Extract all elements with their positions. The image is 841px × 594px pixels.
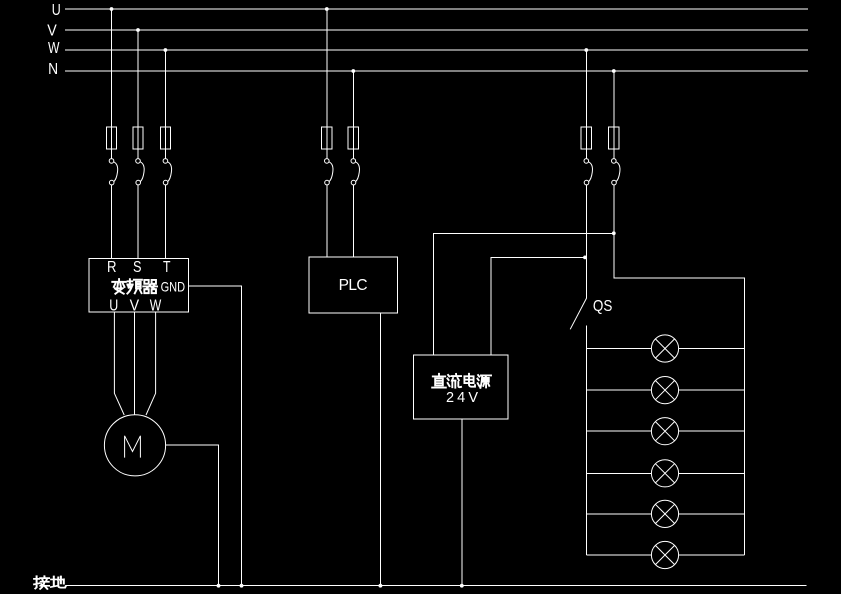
label W: [48, 40, 60, 57]
svg-text:PLC: PLC: [339, 277, 369, 294]
lamp HL2 row: [586, 377, 744, 404]
wire inverter W to motor: [146, 312, 156, 415]
svg-text:U: U: [109, 298, 118, 315]
label V: [47, 23, 57, 40]
PLC box: [309, 257, 397, 313]
wire DC supply to earth: [461, 419, 463, 586]
svg-text:S: S: [133, 259, 142, 276]
wire W bus to fuse FU3: [164, 50, 166, 159]
svg-text:R: R: [107, 259, 117, 276]
motor M1 circle: [104, 415, 165, 476]
lamp HL3 row: [586, 418, 744, 445]
fuse-switch FU6/QF6: [581, 127, 592, 185]
node on U for PLC wire: [325, 7, 329, 11]
node on N for PLC wire: [351, 69, 355, 73]
pin label GND: [161, 279, 186, 295]
wire switch QF1 to inverter R: [111, 185, 113, 258]
wire N bus to fuse FU7: [613, 71, 615, 159]
node on N for lamp branch wire: [612, 69, 616, 73]
DC power supply box 直流电源: [414, 355, 509, 419]
lamp HL6 row: [586, 541, 744, 568]
wire switch QF4 to PLC: [326, 185, 328, 257]
wire switch QF2 to inverter S: [137, 185, 139, 258]
label 24V: [446, 390, 480, 406]
node on U for inverter R wire: [110, 7, 114, 11]
label PLC: [339, 277, 369, 294]
text 接地 (earth): [34, 576, 66, 589]
pin label T: [163, 259, 171, 276]
label N: [48, 61, 58, 78]
lamp HL5 row: [586, 500, 744, 527]
wire motor frame to earth: [166, 445, 219, 586]
pin label V out: [130, 298, 140, 315]
pin label U out: [109, 298, 118, 315]
bus V phase line: [65, 29, 808, 31]
svg-text:N: N: [48, 61, 58, 78]
pin label R: [107, 259, 117, 276]
wire DC supply out to QS wire: [491, 257, 587, 355]
svg-text:GND: GND: [161, 279, 186, 295]
node DC plus joins lamp branch: [612, 231, 616, 235]
wire W bus to fuse FU6: [585, 50, 587, 159]
wire switch QF6 to knife switch QS: [585, 185, 587, 298]
fuse-switch FU5/QF5: [348, 127, 359, 185]
svg-text:W: W: [48, 40, 60, 57]
text 变频器 (inverter): [112, 279, 157, 294]
node DC supply wire on earth: [460, 584, 464, 588]
wire U bus to fuse FU1: [111, 9, 113, 159]
wire inverter GND to earth: [189, 286, 242, 586]
node PLC wire on earth: [379, 584, 383, 588]
bus N neutral line: [65, 70, 808, 72]
wire inverter V to motor: [134, 312, 136, 415]
fuse-switch FU1/QF1: [106, 127, 117, 185]
earth line 接地: [66, 585, 807, 587]
inverter box 变频器: [89, 258, 189, 312]
wire QS lower terminal / lamp left rail: [585, 326, 587, 556]
fuse-switch FU7/QF7: [609, 127, 620, 185]
bus U phase line: [65, 8, 808, 10]
knife switch QS blade (open): [570, 298, 586, 329]
wire switch QF3 to inverter T: [164, 185, 166, 258]
fuse-switch FU4/QF4: [322, 127, 333, 185]
wire DC supply plus to lamp branch: [433, 233, 613, 355]
text 直流电源 (DC power): [432, 374, 491, 388]
fuse-switch FU3/QF3: [160, 127, 171, 185]
lamp HL4 row: [586, 460, 744, 487]
wire U bus to fuse FU4: [326, 9, 328, 159]
motor letter M: [125, 436, 141, 458]
wire switch QF5 to PLC: [352, 185, 354, 257]
svg-text:V: V: [47, 23, 57, 40]
svg-text:QS: QS: [593, 298, 613, 315]
svg-text:T: T: [163, 259, 171, 276]
label QS: [593, 298, 613, 315]
wire PLC to earth: [379, 313, 381, 586]
pin label S: [133, 259, 142, 276]
node inverter GND wire on earth: [240, 584, 244, 588]
lamp HL1 row: [586, 335, 744, 362]
node DC out joins QS wire: [583, 256, 587, 260]
svg-text:24V: 24V: [446, 390, 480, 406]
wire inverter U to motor: [114, 312, 124, 415]
node on W for inverter T wire: [164, 48, 168, 52]
pin label W out: [150, 298, 162, 315]
label U: [52, 2, 61, 19]
fuse-switch FU2/QF2: [133, 127, 144, 185]
svg-text:V: V: [130, 298, 140, 315]
wire switch QF7 down and over to lamp right rail: [614, 185, 745, 555]
svg-text:U: U: [52, 2, 61, 19]
node motor wire on earth: [217, 584, 221, 588]
bus W phase line: [65, 49, 808, 51]
wire V bus to fuse FU2: [137, 30, 139, 159]
svg-text:W: W: [150, 298, 162, 315]
wire N bus to fuse FU5: [352, 71, 354, 159]
node on W for QS branch wire: [584, 48, 588, 52]
node on V for inverter S wire: [136, 28, 140, 32]
